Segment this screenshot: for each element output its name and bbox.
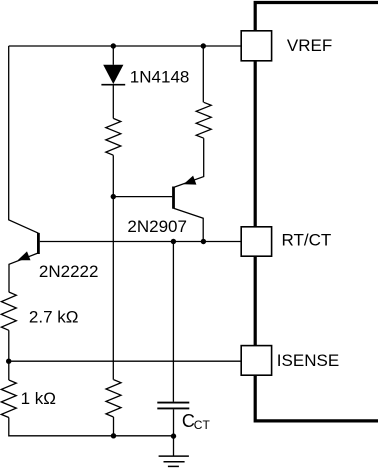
svg-text:RT/CT: RT/CT xyxy=(282,230,332,249)
svg-text:1N4148: 1N4148 xyxy=(130,68,190,87)
svg-text:CT: CT xyxy=(194,418,211,432)
svg-text:1 kΩ: 1 kΩ xyxy=(21,389,56,408)
svg-text:2N2222: 2N2222 xyxy=(39,262,99,281)
svg-text:2N2907: 2N2907 xyxy=(127,217,187,236)
svg-text:2.7 kΩ: 2.7 kΩ xyxy=(29,308,79,327)
svg-text:ISENSE: ISENSE xyxy=(277,351,339,370)
svg-text:VREF: VREF xyxy=(287,36,332,55)
